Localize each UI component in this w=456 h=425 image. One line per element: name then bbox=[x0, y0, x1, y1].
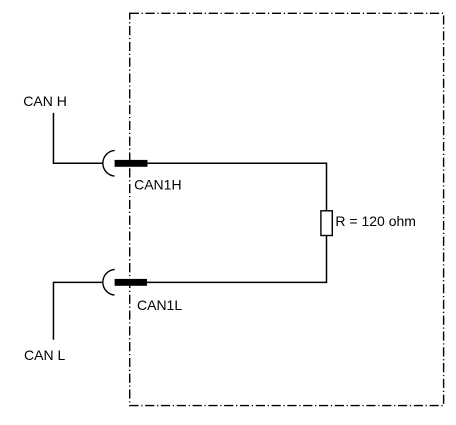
connector CAN1L socket arc bbox=[103, 269, 115, 295]
resistor R body bbox=[321, 211, 332, 236]
connector CAN1L pin bar bbox=[115, 279, 147, 286]
svg-text:CAN1H: CAN1H bbox=[134, 177, 181, 193]
ECU enclosure boundary (dash-dot box) bbox=[130, 13, 444, 405]
svg-text:CAN L: CAN L bbox=[24, 347, 65, 363]
svg-text:CAN H: CAN H bbox=[23, 93, 67, 109]
svg-text:R = 120 ohm: R = 120 ohm bbox=[335, 213, 416, 229]
connector CAN1H socket arc bbox=[103, 150, 115, 176]
wire CAN1H to resistor top bbox=[148, 163, 327, 211]
wire CAN L lead bbox=[53, 282, 101, 339]
connector CAN1H pin bar bbox=[115, 160, 148, 167]
wire CAN H lead bbox=[53, 113, 102, 163]
wire resistor bottom to CAN1L bbox=[147, 236, 327, 283]
svg-text:CAN1L: CAN1L bbox=[137, 297, 182, 313]
